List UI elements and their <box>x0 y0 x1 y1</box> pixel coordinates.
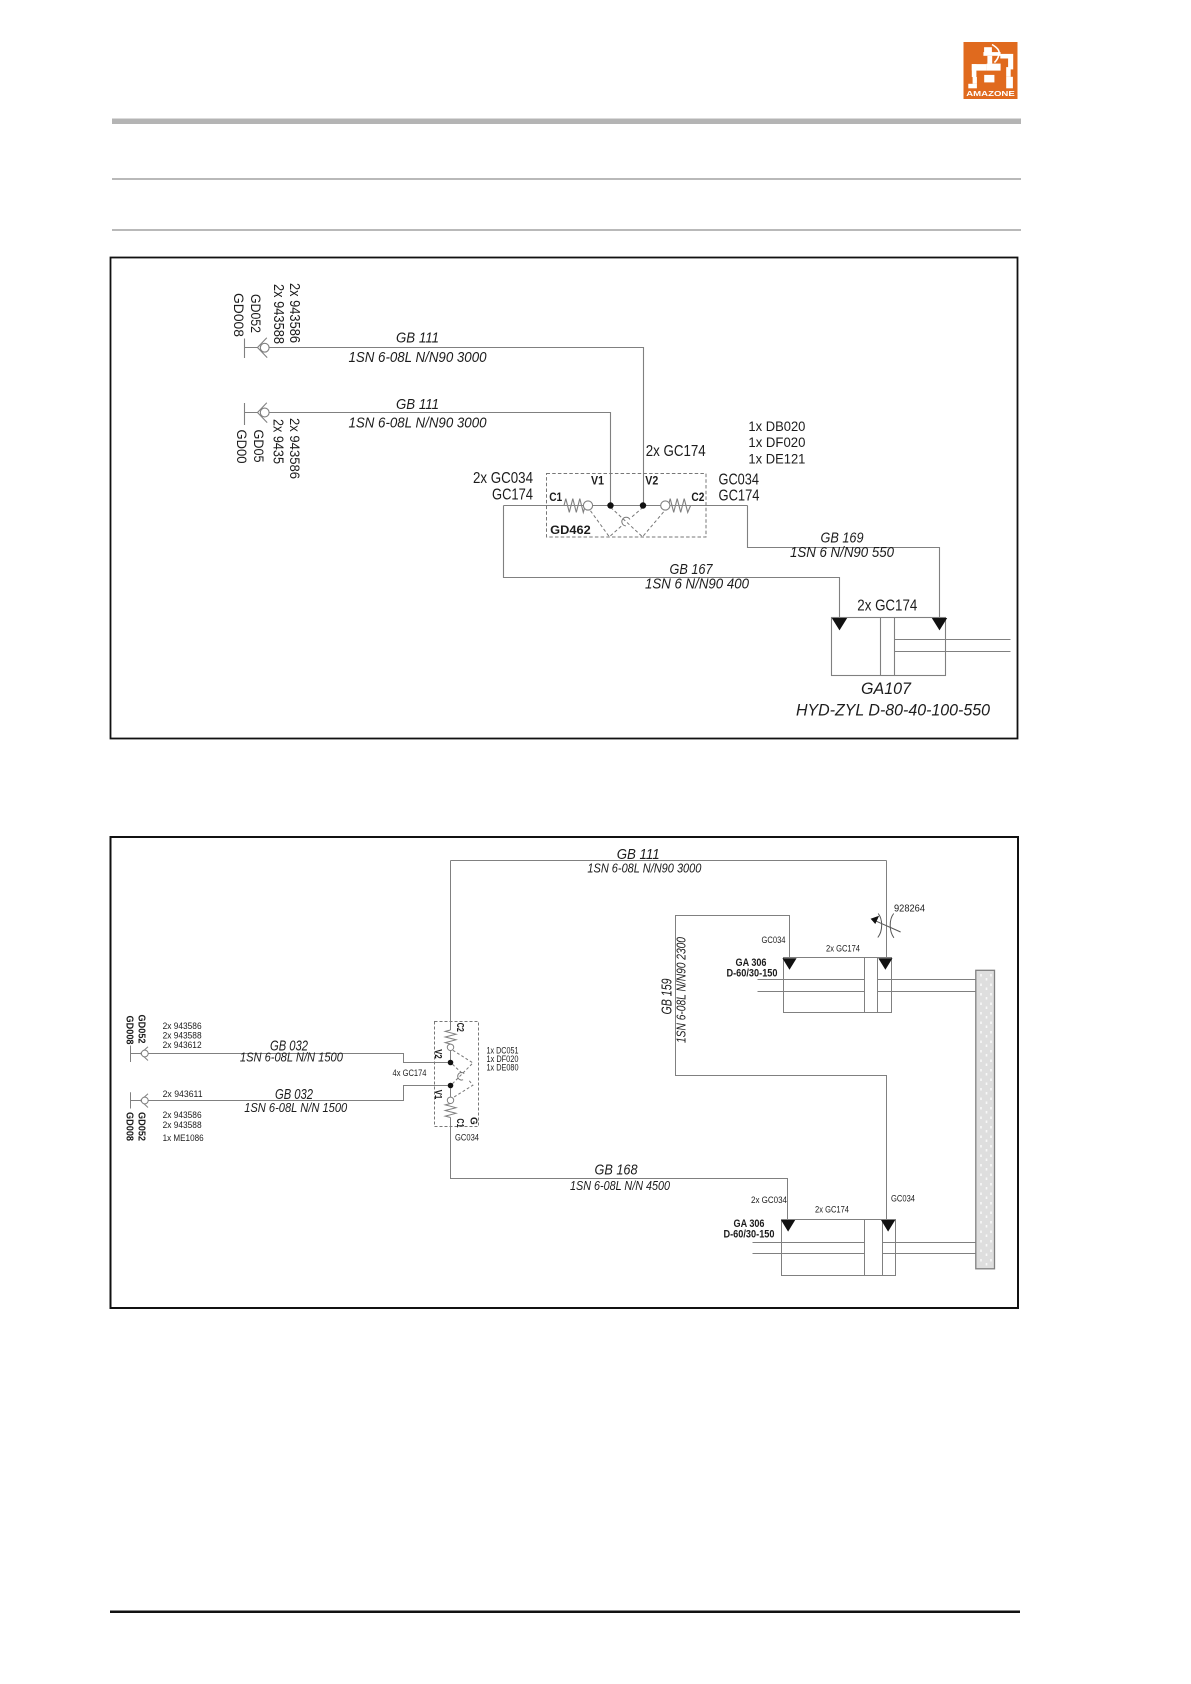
svg-text:GD052: GD052 <box>136 1015 147 1044</box>
port arrow left GA306 bottom <box>781 1220 795 1232</box>
svg-text:GB 111: GB 111 <box>396 397 439 413</box>
svg-text:C2: C2 <box>691 492 704 504</box>
footer rule <box>110 1611 1020 1614</box>
svg-text:2x GC034: 2x GC034 <box>473 470 533 487</box>
coupling top symbol box2 <box>131 1046 149 1063</box>
svg-text:1x DE080: 1x DE080 <box>487 1063 519 1073</box>
svg-text:V1: V1 <box>591 475 605 487</box>
svg-text:2x 9435: 2x 9435 <box>270 419 286 464</box>
svg-text:GD05: GD05 <box>251 430 267 463</box>
svg-text:1x DF020: 1x DF020 <box>748 434 805 450</box>
wire elbow GB169 right <box>748 506 940 618</box>
svg-text:1x DB020: 1x DB020 <box>748 418 805 434</box>
hose GB 032 bottom wire <box>148 1086 447 1101</box>
svg-text:2x 943588: 2x 943588 <box>163 1120 202 1130</box>
hose GB 159 wire <box>676 916 887 1220</box>
svg-text:GD008: GD008 <box>124 1016 135 1045</box>
hose GB 111 wire (box2) <box>451 860 887 862</box>
svg-text:GA107: GA107 <box>861 679 912 698</box>
svg-text:GB 168: GB 168 <box>595 1163 638 1179</box>
node V2 (valve2) <box>448 1060 454 1066</box>
svg-text:2x GC174: 2x GC174 <box>826 944 860 954</box>
svg-text:V2: V2 <box>645 475 658 487</box>
svg-text:928264: 928264 <box>894 904 925 915</box>
valve2 pilot jump C symbol <box>458 1072 465 1080</box>
svg-text:GD462: GD462 <box>550 525 591 537</box>
coupling GD05/GD00 symbol (bottom) <box>245 403 270 425</box>
hose GB 111 (second) wire <box>269 413 610 504</box>
hose GB 032 top wire <box>148 1054 447 1063</box>
hose GB 111 (top) wire <box>269 348 643 504</box>
cylinder GA306 bottom <box>782 1220 896 1276</box>
port arrow right GA107 <box>932 618 947 630</box>
svg-text:GC034: GC034 <box>891 1194 915 1204</box>
valve GD462 dashed enclosure <box>547 474 707 538</box>
node V1 <box>607 502 613 508</box>
valve GD462 pilot dashed lines <box>591 507 665 537</box>
svg-text:D-60/30-150: D-60/30-150 <box>727 968 778 980</box>
valve2 pilot dashed lines <box>452 1050 473 1098</box>
svg-text:G: G <box>468 1117 479 1125</box>
svg-text:V1: V1 <box>432 1090 443 1100</box>
svg-text:2x GC034: 2x GC034 <box>751 1195 787 1205</box>
svg-text:2x 943586: 2x 943586 <box>163 1110 202 1120</box>
svg-text:C2: C2 <box>454 1023 465 1032</box>
svg-text:GC034: GC034 <box>719 472 760 489</box>
wall plate (hatched) <box>976 970 995 1269</box>
cylinder GA107 <box>832 618 1011 676</box>
svg-text:2x 943611: 2x 943611 <box>163 1089 203 1099</box>
svg-text:2x 943588: 2x 943588 <box>163 1031 202 1041</box>
throttle valve 928264 <box>874 914 901 938</box>
svg-text:1SN 6-08L N/N90 2300: 1SN 6-08L N/N90 2300 <box>674 936 689 1043</box>
svg-text:1SN 6-08L N/N90 3000: 1SN 6-08L N/N90 3000 <box>349 415 488 432</box>
cylinder GA306 top <box>784 958 892 1013</box>
svg-text:C1: C1 <box>454 1119 465 1128</box>
svg-text:2x GC174: 2x GC174 <box>857 597 917 614</box>
coupling bottom symbol box2 <box>131 1092 149 1108</box>
svg-text:GC034: GC034 <box>762 935 786 945</box>
spring left of valve <box>564 499 585 513</box>
check ball C2 <box>661 501 670 510</box>
svg-text:1SN 6-08L N/N 4500: 1SN 6-08L N/N 4500 <box>570 1178 671 1193</box>
port arrow left GA306 top <box>782 958 796 970</box>
svg-text:2x GC174: 2x GC174 <box>815 1205 849 1215</box>
svg-text:2x 943588: 2x 943588 <box>270 284 286 344</box>
wire elbow GB167 left <box>504 506 840 618</box>
valve pilot jump C symbol <box>622 517 630 526</box>
svg-text:GC174: GC174 <box>492 487 533 504</box>
svg-text:2x 943612: 2x 943612 <box>163 1040 202 1050</box>
port arrow right GA306 top <box>878 958 892 970</box>
node V2 <box>640 502 646 508</box>
svg-text:GB 111: GB 111 <box>396 331 439 347</box>
svg-text:4x GC174: 4x GC174 <box>393 1068 427 1078</box>
svg-text:GC034: GC034 <box>455 1133 479 1143</box>
coupling GD052/GD008 symbol (top) <box>245 338 270 358</box>
node V1 (valve2) <box>448 1083 454 1089</box>
valve2 dashed enclosure <box>435 1022 479 1127</box>
check ball C1 <box>583 501 592 510</box>
header rule 2 <box>112 178 1021 180</box>
svg-text:1SN 6 N/N90 400: 1SN 6 N/N90 400 <box>645 576 750 593</box>
svg-text:AMAZONE: AMAZONE <box>966 89 1015 98</box>
spring C2 (vertical) <box>445 1030 456 1044</box>
svg-text:V2: V2 <box>432 1049 443 1059</box>
svg-text:D-60/30-150: D-60/30-150 <box>724 1229 775 1241</box>
valve GD462 mid line <box>504 505 748 507</box>
svg-text:1SN 6-08L N/N 1500: 1SN 6-08L N/N 1500 <box>240 1050 344 1065</box>
AMAZONE logo <box>964 42 1018 99</box>
svg-text:GC174: GC174 <box>719 488 760 505</box>
svg-text:2x 943586: 2x 943586 <box>286 283 302 343</box>
svg-text:1x ME1086: 1x ME1086 <box>163 1133 204 1143</box>
svg-text:GD00: GD00 <box>234 430 250 464</box>
header rule thick <box>112 119 1021 125</box>
spring C1 (vertical) <box>445 1104 456 1118</box>
frame box 1 <box>111 258 1018 739</box>
svg-text:GD008: GD008 <box>231 293 247 337</box>
svg-text:2x 943586: 2x 943586 <box>163 1021 202 1031</box>
svg-text:GD052: GD052 <box>136 1112 147 1141</box>
header rule 3 <box>112 229 1021 231</box>
port arrow right GA306 bottom <box>881 1220 895 1232</box>
check ball bottom valve2 <box>447 1097 453 1103</box>
svg-text:1SN 6-08L N/N 1500: 1SN 6-08L N/N 1500 <box>244 1100 348 1115</box>
svg-text:GD052: GD052 <box>248 294 264 333</box>
svg-text:C1: C1 <box>549 492 563 504</box>
hose GB 168 wire <box>451 1118 788 1220</box>
throttle feed wire <box>886 861 888 958</box>
check ball top valve2 <box>447 1044 453 1050</box>
svg-text:1SN 6 N/N90 550: 1SN 6 N/N90 550 <box>790 544 895 561</box>
svg-text:HYD-ZYL D-80-40-100-550: HYD-ZYL D-80-40-100-550 <box>796 701 991 720</box>
valve2 main vertical top <box>450 861 452 1031</box>
svg-text:2x 943586: 2x 943586 <box>287 418 303 479</box>
spring right of valve <box>668 499 690 513</box>
frame box 2 <box>111 837 1019 1308</box>
svg-text:1SN 6-08L N/N90 3000: 1SN 6-08L N/N90 3000 <box>587 860 702 875</box>
port arrow left GA107 <box>832 618 847 630</box>
svg-text:2x GC174: 2x GC174 <box>646 443 706 460</box>
svg-text:1x DE121: 1x DE121 <box>748 451 805 467</box>
svg-text:1SN 6-08L N/N90 3000: 1SN 6-08L N/N90 3000 <box>349 349 488 366</box>
svg-text:GD008: GD008 <box>124 1112 135 1141</box>
